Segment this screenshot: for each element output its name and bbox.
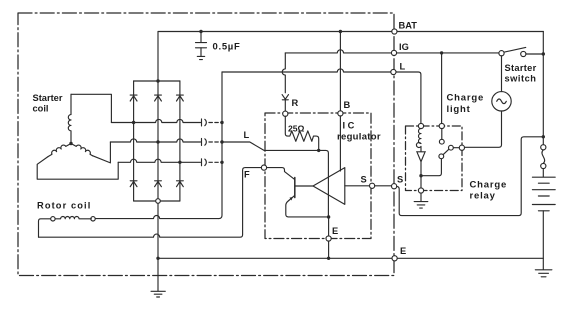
svg-text:S: S xyxy=(397,175,403,185)
rotor slip ring right xyxy=(91,217,95,221)
node rectifier top center xyxy=(156,79,159,82)
node main vertical / switch xyxy=(542,52,545,55)
wire IG to relay xyxy=(441,53,443,123)
wire S between terminals xyxy=(375,185,392,187)
node phase2-diode junction xyxy=(156,140,159,143)
connector phase 3 xyxy=(202,159,207,166)
stator left phase route wire xyxy=(37,157,118,180)
terminal E (regulator) xyxy=(326,236,331,241)
node phase3-diode junction xyxy=(178,161,181,164)
svg-text:E: E xyxy=(400,246,406,256)
battery BT1 xyxy=(532,177,555,211)
wire E drop xyxy=(328,217,330,258)
wire phase 3 xyxy=(118,159,200,162)
wire L tap to regulator xyxy=(222,142,328,217)
starter contact lower xyxy=(541,163,546,168)
terminal IG xyxy=(391,50,396,55)
terminal R xyxy=(283,111,288,116)
svg-text:Charge: Charge xyxy=(447,93,485,104)
diode D6 (lower) xyxy=(177,181,184,187)
svg-text:relay: relay xyxy=(470,191,496,202)
wire E bus xyxy=(158,257,543,259)
capacitor C (0.5uF) lead xyxy=(200,32,202,43)
relay contact arm mid xyxy=(449,145,454,150)
diode D3 (upper) xyxy=(177,95,184,101)
rectifier top bus xyxy=(134,80,180,82)
wire relay junction to arm xyxy=(421,159,441,176)
svg-text:switch: switch xyxy=(505,74,537,84)
diode D5 (lower) xyxy=(155,181,162,187)
diode R xyxy=(282,95,288,100)
diode D4 (lower) xyxy=(130,181,137,187)
rotor coil winding xyxy=(56,216,92,218)
node resistor junction xyxy=(317,149,320,152)
svg-text:Rotor coil: Rotor coil xyxy=(37,201,91,211)
capacitor C ground xyxy=(197,48,204,60)
starter contact upper xyxy=(541,145,546,150)
charge relay box (dash-dot) xyxy=(406,126,463,191)
node relay coil junction xyxy=(419,174,422,177)
wire main right vertical xyxy=(542,32,544,145)
node emitter junction xyxy=(327,215,330,218)
node capacitor tap xyxy=(199,30,202,33)
wire S to battery sense xyxy=(397,137,544,216)
svg-text:E: E xyxy=(332,226,338,236)
starter switch contact 2 xyxy=(521,51,526,56)
relay diode xyxy=(417,152,426,162)
svg-text:S: S xyxy=(361,175,367,185)
node phase1-diode junction xyxy=(132,121,135,124)
op-amp U1 (regulator amplifier) xyxy=(313,168,345,205)
stator coil top winding xyxy=(68,94,71,143)
relay terminal ground xyxy=(418,188,423,193)
wire diode R to terminal xyxy=(284,100,286,111)
terminal B xyxy=(338,111,343,116)
svg-text:Charge: Charge xyxy=(470,180,508,191)
wire switch to main vertical xyxy=(526,53,543,55)
wire relay coil to ground xyxy=(420,162,422,188)
stator coil left winding xyxy=(48,144,71,157)
node B wire tap xyxy=(339,30,342,33)
wire relay IG to contact xyxy=(441,129,443,140)
relay ground symbol xyxy=(414,193,428,208)
terminal S (regulator) xyxy=(370,183,375,188)
resistor 25ohm xyxy=(285,116,318,148)
wire phase tap vertical (connector bus) xyxy=(219,72,222,219)
wire contact to battery xyxy=(542,169,544,177)
svg-text:L: L xyxy=(244,130,250,140)
rectifier leg 2 xyxy=(157,81,159,201)
stator coil right winding xyxy=(71,144,93,156)
terminal S (alternator) xyxy=(392,184,397,189)
node E bus / regulator E xyxy=(327,257,330,260)
charge light lamp xyxy=(492,92,511,111)
wire phase 1 xyxy=(111,119,200,122)
svg-text:Starter: Starter xyxy=(505,63,537,73)
wire lamp bottom lead xyxy=(465,111,502,147)
svg-text:R: R xyxy=(292,98,299,108)
stator top phase feed wire xyxy=(71,94,111,122)
transistor Q1 emitter arrow xyxy=(290,197,293,201)
wire lamp top lead xyxy=(501,56,503,92)
wire F return line xyxy=(39,168,262,238)
rectifier leg 1 xyxy=(133,81,135,201)
wire rotor to phase tap xyxy=(96,216,219,219)
node phase1 tap xyxy=(220,121,223,124)
node rectifier bottom center (terminal) xyxy=(156,199,161,204)
wire IG line xyxy=(285,50,501,53)
svg-text:L: L xyxy=(400,62,406,72)
transistor Q1 emitter wire xyxy=(286,196,329,217)
svg-text:regulator: regulator xyxy=(337,132,381,143)
wire battery to ground xyxy=(542,211,544,270)
wire ground stem xyxy=(157,203,159,291)
terminal BAT xyxy=(392,29,397,34)
relay terminal output xyxy=(459,145,464,150)
svg-text:I C: I C xyxy=(343,121,355,131)
node IG relay tap xyxy=(440,51,443,54)
diode D1 (upper) xyxy=(130,95,137,101)
terminal F xyxy=(261,165,266,170)
IC regulator box (dash-dot) xyxy=(265,113,371,239)
node E bus / ground stem xyxy=(156,257,159,260)
relay terminal L xyxy=(418,123,423,128)
svg-text:Starter: Starter xyxy=(33,93,63,103)
terminal L xyxy=(391,69,396,74)
wire B drop xyxy=(339,32,341,111)
svg-text:BAT: BAT xyxy=(399,21,418,31)
relay coil xyxy=(416,129,421,152)
node battery sense junction xyxy=(542,135,545,138)
stator right phase route wire xyxy=(93,142,111,163)
relay contact moving pivot xyxy=(439,154,444,159)
svg-text:light: light xyxy=(447,104,471,115)
transistor Q1 collector wire (from F) xyxy=(267,168,295,180)
svg-text:IG: IG xyxy=(399,42,409,52)
relay arm xyxy=(443,148,459,155)
ground (battery) xyxy=(535,270,552,277)
starter contact link xyxy=(542,150,545,164)
svg-text:F: F xyxy=(244,170,250,180)
diode D2 (upper) xyxy=(155,95,162,101)
transistor Q1 base wire xyxy=(295,185,313,187)
starter switch contact 1 xyxy=(499,51,504,56)
alternator boundary box (dash-dot) xyxy=(18,13,394,276)
starter switch blade xyxy=(504,47,526,52)
relay contact fixed (IG side) xyxy=(439,139,444,144)
capacitor C plates xyxy=(196,43,207,48)
connector phase 1 xyxy=(202,119,207,126)
svg-text:coil: coil xyxy=(33,104,49,114)
node stator wye center xyxy=(69,142,72,145)
svg-text:25Ω: 25Ω xyxy=(288,124,305,134)
relay terminal IG xyxy=(439,123,444,128)
svg-text:0.5µF: 0.5µF xyxy=(213,42,241,53)
rotor slip ring left xyxy=(51,217,55,221)
transistor Q1 base bar xyxy=(294,178,296,198)
rectifier bottom bus xyxy=(134,200,180,202)
wire BAT bus (rectifier riser to right vertical) xyxy=(158,32,543,82)
diode R feed from IG xyxy=(282,53,285,93)
ground (center bottom) xyxy=(151,291,165,297)
connector phase 2 xyxy=(202,139,207,146)
rectifier leg 3 xyxy=(179,81,181,201)
wire phase 2 xyxy=(110,139,200,142)
wire B into regulator xyxy=(339,116,341,171)
wire rotor left to F return xyxy=(39,219,51,237)
wire S output xyxy=(345,185,370,187)
node phase2 tap xyxy=(220,140,223,143)
node phase3 tap xyxy=(220,161,223,164)
lamp filament xyxy=(497,99,507,104)
svg-text:B: B xyxy=(344,100,351,110)
wire L line (to charge relay) xyxy=(222,69,421,123)
terminal E (alternator) xyxy=(392,256,397,261)
